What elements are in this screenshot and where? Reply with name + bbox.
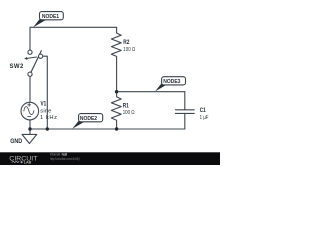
- resistor R1: [111, 92, 121, 129]
- resistor R2: [111, 27, 121, 91]
- voltage source V1: [21, 102, 39, 120]
- svg-text:1 kHz: 1 kHz: [40, 115, 58, 121]
- wire bottom horizontal: [30, 128, 185, 130]
- capacitor C1: [175, 92, 194, 129]
- wire mid horizontal: [117, 91, 185, 93]
- svg-text:NODE3: NODE3: [163, 79, 180, 85]
- node NODE3 flag: [155, 77, 185, 92]
- svg-text:100 Ω: 100 Ω: [123, 109, 135, 116]
- svg-text:LAB: LAB: [24, 160, 31, 165]
- node NODE1 flag: [33, 12, 63, 28]
- switch SW2: [26, 50, 42, 76]
- svg-text:C1: C1: [200, 108, 206, 115]
- wire switch to source: [29, 76, 31, 102]
- wire top horizontal: [30, 26, 117, 28]
- svg-text:SW2: SW2: [10, 64, 24, 70]
- svg-text:GND: GND: [10, 139, 22, 145]
- junction node D (R2/R1): [115, 90, 118, 93]
- svg-text:sine: sine: [40, 109, 51, 115]
- svg-text:NODE1: NODE1: [42, 14, 59, 20]
- svg-text:Khamuki / test: Khamuki / test: [50, 152, 68, 156]
- ground: [22, 129, 37, 144]
- svg-text:R2: R2: [123, 40, 129, 47]
- footer watermark bar: [0, 152, 220, 165]
- junction node A (V1/GND): [28, 127, 31, 130]
- svg-text:http://circuitlab.com/c9443jf: http://circuitlab.com/c9443jf: [50, 157, 80, 161]
- node NODE2 flag: [72, 114, 102, 129]
- svg-text:NODE2: NODE2: [80, 116, 97, 122]
- junction node B (switch branch): [46, 127, 49, 130]
- wire source to bottom: [29, 120, 31, 129]
- footer logo diamond: [20, 161, 23, 164]
- wire switch right branch: [43, 56, 48, 129]
- svg-text:100 Ω: 100 Ω: [123, 46, 135, 53]
- wire left upper vertical: [29, 27, 31, 50]
- switch arrow head: [24, 57, 27, 60]
- svg-text:1 µF: 1 µF: [200, 114, 209, 121]
- footer logo wave: [12, 161, 19, 162]
- svg-text:V1: V1: [41, 101, 47, 108]
- junction node C (R1 bottom): [115, 127, 118, 130]
